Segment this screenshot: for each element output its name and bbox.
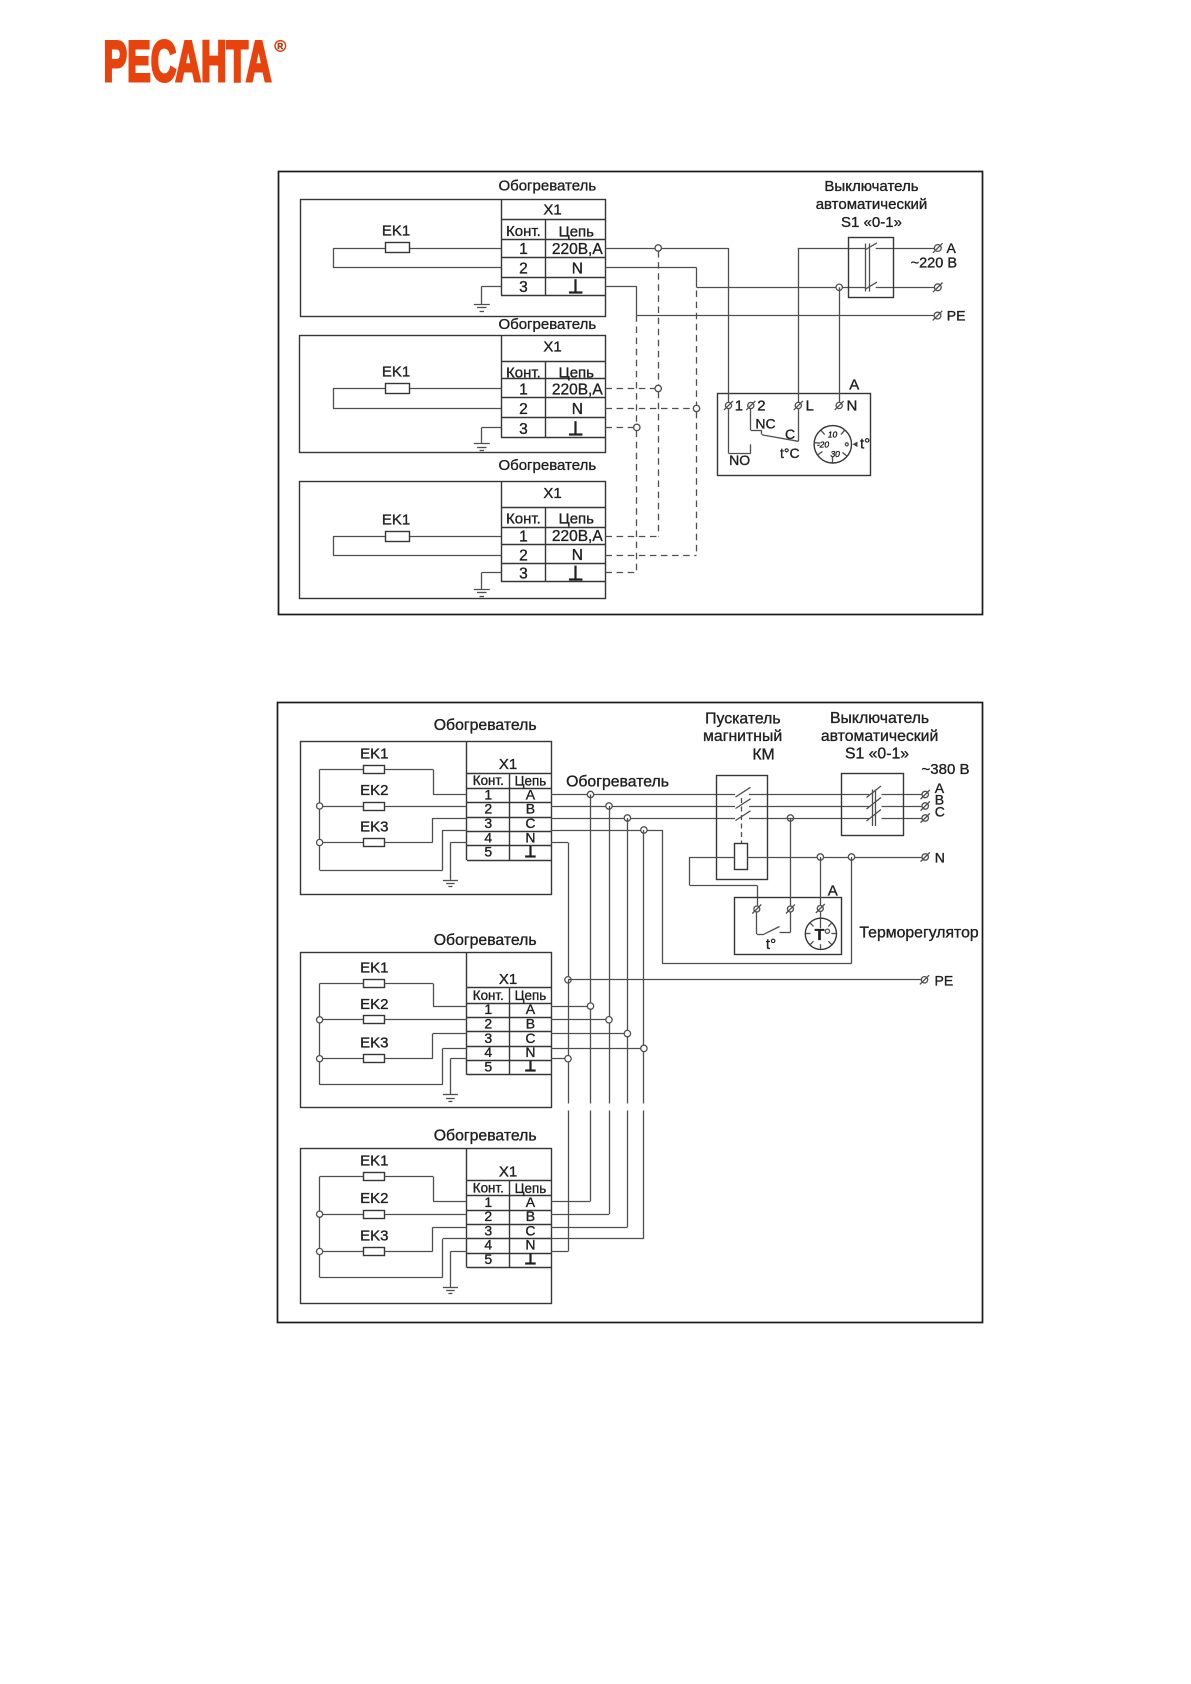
svg-text:NO: NO — [729, 452, 750, 468]
svg-text:A: A — [849, 376, 859, 393]
svg-text:X1: X1 — [543, 339, 561, 356]
svg-text:1: 1 — [519, 382, 528, 399]
svg-text:Обогреватель: Обогреватель — [434, 717, 537, 734]
svg-text:C: C — [785, 426, 795, 442]
svg-text:EK1: EK1 — [360, 1153, 388, 1170]
svg-text:Обогреватель: Обогреватель — [434, 932, 537, 949]
svg-text:1: 1 — [519, 528, 528, 545]
svg-text:EK2: EK2 — [360, 1190, 388, 1207]
svg-text:Конт.: Конт. — [506, 364, 541, 381]
svg-text:EK1: EK1 — [360, 746, 388, 763]
svg-text:магнитный: магнитный — [703, 728, 782, 745]
svg-text:~380 В: ~380 В — [922, 761, 970, 778]
svg-text:3: 3 — [519, 421, 528, 438]
svg-text:Обогреватель: Обогреватель — [498, 457, 596, 474]
svg-text:EK1: EK1 — [382, 512, 410, 529]
svg-text:N: N — [572, 401, 583, 418]
svg-text:Обогреватель: Обогреватель — [498, 316, 596, 333]
svg-text:EK3: EK3 — [360, 819, 388, 836]
svg-text:EK1: EK1 — [382, 364, 410, 381]
svg-text:Цепь: Цепь — [559, 223, 595, 240]
svg-text:2: 2 — [519, 401, 528, 418]
svg-text:5: 5 — [484, 1251, 492, 1267]
svg-text:1: 1 — [735, 398, 743, 415]
svg-text:220В,А: 220В,А — [552, 241, 604, 258]
svg-text:10: 10 — [828, 429, 838, 439]
svg-text:N: N — [935, 850, 945, 866]
svg-text:Пускатель: Пускатель — [705, 711, 780, 728]
svg-text:2: 2 — [519, 261, 528, 278]
svg-text:3: 3 — [519, 279, 528, 296]
svg-text:A: A — [947, 240, 957, 256]
svg-text:R: R — [277, 42, 283, 51]
svg-text:EK1: EK1 — [360, 960, 388, 977]
svg-text:X1: X1 — [543, 485, 561, 502]
svg-text:X1: X1 — [499, 971, 517, 988]
svg-text:Обогреватель: Обогреватель — [434, 1127, 537, 1144]
svg-text:Конт.: Конт. — [506, 510, 541, 527]
svg-text:Обогреватель: Обогреватель — [498, 178, 596, 195]
svg-text:1: 1 — [519, 241, 528, 258]
svg-text:КМ: КМ — [752, 746, 774, 763]
svg-text:X1: X1 — [499, 756, 517, 773]
svg-text:PE: PE — [947, 307, 966, 323]
svg-text:Выключатель: Выключатель — [830, 710, 929, 727]
svg-text:L: L — [806, 398, 814, 415]
svg-text:Цепь: Цепь — [559, 511, 595, 528]
svg-text:2: 2 — [519, 548, 528, 565]
svg-text:N: N — [572, 547, 583, 564]
svg-text:5: 5 — [484, 844, 492, 860]
svg-text:Выключатель: Выключатель — [824, 178, 918, 195]
svg-text:EK1: EK1 — [382, 223, 410, 240]
svg-text:EK3: EK3 — [360, 1228, 388, 1245]
svg-text:Цепь: Цепь — [559, 365, 595, 382]
svg-text:X1: X1 — [499, 1163, 517, 1180]
svg-text:N: N — [525, 1044, 535, 1060]
svg-text:30: 30 — [830, 449, 840, 459]
svg-text:Обогреватель: Обогреватель — [566, 774, 669, 791]
svg-text:t°: t° — [766, 936, 776, 953]
svg-text:220В,А: 220В,А — [552, 528, 604, 545]
svg-text:t°: t° — [860, 436, 870, 453]
svg-text:A: A — [828, 883, 838, 900]
svg-text:S1 «0-1»: S1 «0-1» — [841, 214, 902, 231]
svg-text:EK3: EK3 — [360, 1035, 388, 1052]
svg-text:автоматический: автоматический — [821, 728, 939, 745]
svg-text:EK2: EK2 — [360, 782, 388, 799]
svg-text:T: T — [815, 927, 825, 944]
svg-text:РЕСАНТА: РЕСАНТА — [104, 30, 272, 94]
svg-text:N: N — [525, 829, 535, 845]
svg-text:5: 5 — [484, 1058, 492, 1074]
svg-text:-20: -20 — [817, 439, 830, 449]
svg-text:X1: X1 — [543, 201, 561, 218]
svg-text:N: N — [572, 260, 583, 277]
svg-text:~220 В: ~220 В — [911, 256, 957, 272]
svg-text:2: 2 — [757, 398, 765, 415]
svg-text:Терморегулятор: Терморегулятор — [859, 925, 978, 942]
svg-text:N: N — [847, 398, 858, 415]
svg-text:C: C — [935, 803, 945, 819]
svg-text:t°C: t°C — [780, 445, 800, 461]
svg-text:EK2: EK2 — [360, 996, 388, 1013]
svg-text:NC: NC — [755, 415, 775, 431]
svg-text:автоматический: автоматический — [816, 196, 928, 213]
svg-text:S1 «0-1»: S1 «0-1» — [845, 746, 909, 763]
svg-text:3: 3 — [519, 566, 528, 583]
svg-text:PE: PE — [935, 972, 954, 988]
svg-text:Конт.: Конт. — [506, 223, 541, 240]
svg-text:N: N — [525, 1237, 535, 1253]
svg-text:220В,А: 220В,А — [552, 381, 604, 398]
